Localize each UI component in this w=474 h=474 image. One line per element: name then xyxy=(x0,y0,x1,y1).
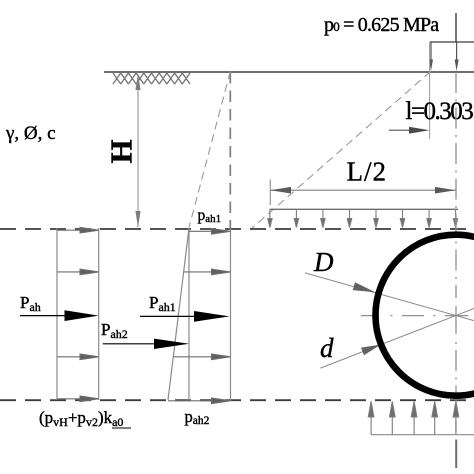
crown dashed line xyxy=(0,228,474,230)
svg-text:L/2: L/2 xyxy=(347,157,388,187)
left pressure rectangle xyxy=(57,228,99,400)
D leader line xyxy=(305,273,474,321)
invert dashed line xyxy=(0,399,474,401)
Pah arrow xyxy=(20,310,99,321)
L/2 extension line left xyxy=(269,180,271,206)
p0 bracket line xyxy=(430,41,474,43)
svg-text:H: H xyxy=(104,139,139,163)
d leader line xyxy=(320,309,474,369)
p0 load arrow left xyxy=(429,42,433,71)
horizontal centerline xyxy=(361,315,469,317)
ka0 underline xyxy=(112,427,131,429)
p0 dimension boundary vertical xyxy=(455,13,457,42)
triangle pressure diagram lines xyxy=(168,228,231,401)
svg-text:D: D xyxy=(313,247,334,277)
p0 load arrow right xyxy=(455,42,459,71)
svg-text:p0 = 0.625 MPa: p0 = 0.625 MPa xyxy=(324,14,439,36)
vertical centerline xyxy=(455,72,457,468)
pipe circle xyxy=(376,235,474,396)
rectangle pressure arrows xyxy=(57,227,99,401)
vertical dashed line at pipe side above crown xyxy=(229,72,231,228)
l dimension arrow xyxy=(389,127,430,134)
l dimension boundary line xyxy=(429,42,431,139)
svg-text:l=0.303: l=0.303 xyxy=(406,98,474,125)
surcharge load line xyxy=(270,208,458,210)
bottom reaction arrows xyxy=(368,401,458,434)
ground hatching xyxy=(113,73,190,84)
triangle pressure arrows xyxy=(168,229,230,404)
svg-text:γ, Ø, c: γ, Ø, c xyxy=(5,123,56,144)
bottom reaction header line xyxy=(371,434,474,436)
load spread dashed line xyxy=(251,72,431,230)
L/2 dimension line xyxy=(270,187,455,194)
svg-text:(pvH+pv2)ka0: (pvH+pv2)ka0 xyxy=(39,408,123,429)
H dimension line xyxy=(135,74,140,228)
pressure hypotenuse dashed above crown xyxy=(189,72,230,228)
svg-text:d: d xyxy=(320,333,334,363)
surcharge arrows xyxy=(268,209,458,228)
ground surface line xyxy=(104,71,474,73)
Pah1 arrow xyxy=(140,311,230,322)
Pah2 arrow xyxy=(103,339,189,349)
